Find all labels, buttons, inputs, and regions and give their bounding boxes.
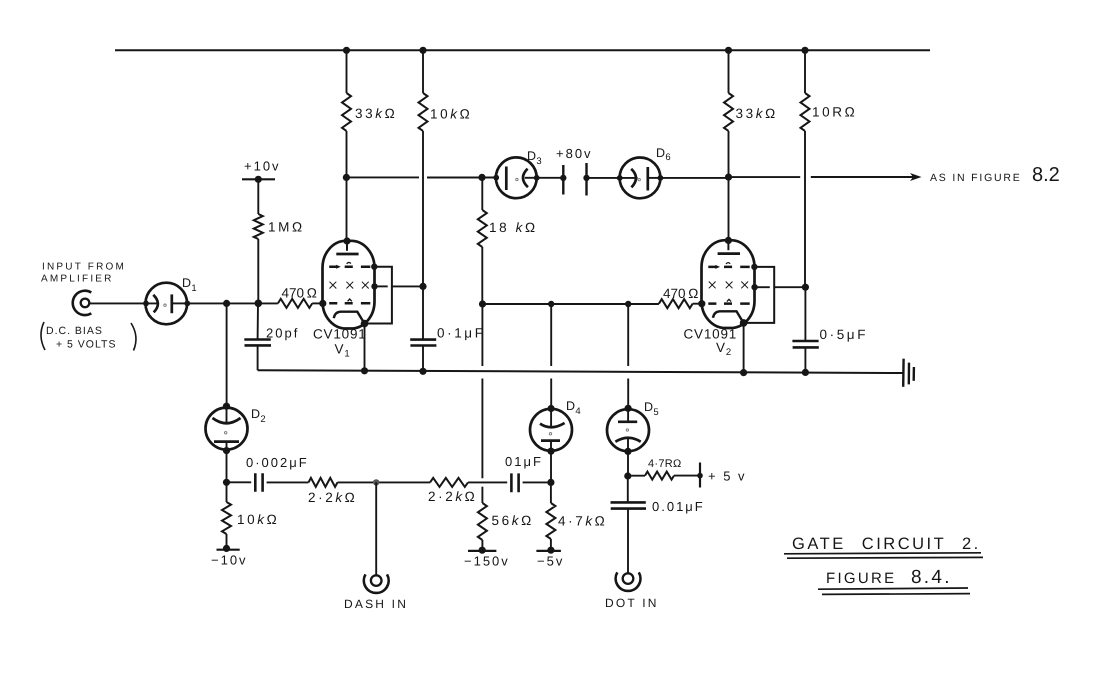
wire D1 to 470 left [187,302,278,304]
label D3 [527,149,542,167]
wire 56k to -150V [481,540,483,550]
label CV1091 V2 [684,327,738,359]
label -150V [464,554,510,569]
capacitor 0.1uF [410,340,436,346]
diode D1 [146,283,188,325]
svg-text:CV1091: CV1091 [313,327,367,342]
svg-text:DOT IN: DOT IN [605,596,659,610]
wire V1 anode to 18k node [346,176,419,178]
wire +10V to 1M [257,179,259,214]
node D4 bottom [547,448,554,455]
label D4 [566,399,581,417]
svg-text:470 Ω: 470 Ω [663,286,701,301]
wire dash node to terminal [375,482,377,575]
wire 33k left to V1 anode [346,131,348,241]
node V2 anode top [725,237,732,244]
resistor 4.7R [645,472,674,480]
node bus-33k-left [343,47,350,54]
label AS IN FIGURE 8.2 [930,164,1060,186]
node cap0.1-groundbus [419,368,426,375]
node -150V [479,547,486,554]
label DOT IN [605,596,659,610]
node D4 top [548,405,555,412]
resistor 4.7k [546,503,555,539]
wire 4.7k to -5V [550,539,552,550]
svg-text:01μF: 01μF [505,454,543,469]
diode D6 [620,158,661,199]
power +10V bar [242,178,275,180]
resistor 470 left [278,299,312,308]
diode D4 [530,409,572,451]
wire 20pF to ground bus corner [257,346,259,371]
node +5V junction [624,472,631,479]
wire output to figure 8.2 arrow [811,176,913,178]
resistor 2.2k A [309,478,338,487]
node V2 screen right [751,284,757,290]
wire D5 tap crossing bus lower [627,379,629,409]
label 56kOhm [492,513,534,528]
wire cap 0.01 to DOT IN [627,509,629,573]
resistor 1M [254,214,263,239]
node V1 anode top [343,237,350,244]
svg-text:−10v: −10v [211,553,248,568]
label 0.1uF [437,326,486,341]
svg-text:56kΩ: 56kΩ [492,513,534,528]
node D2 tap [223,300,230,307]
node -5V [547,547,554,554]
wire junction to 10k [226,482,228,502]
svg-text:AMPLIFIER: AMPLIFIER [41,274,114,285]
wire 18k node down [481,177,483,210]
node D3 cathode lead [534,175,540,181]
svg-text:2·2kΩ: 2·2kΩ [428,489,477,504]
terminal DASH IN [364,574,389,593]
wire 10k to -10V [226,534,228,548]
svg-text:+80v: +80v [556,146,593,161]
wire D5 tap crossing bus upper [627,304,629,366]
wire top HT bus [115,49,930,51]
resistor 33k right [724,93,733,131]
svg-text:20pf: 20pf [266,326,299,341]
wire D4 tap crossing bus lower [550,379,552,409]
node +5V [697,473,703,479]
svg-text:2·2kΩ: 2·2kΩ [308,490,357,505]
wire V1 screen to cap node a [375,285,388,287]
wire 18k to grid line [481,247,483,304]
wire junction to cap 0.002 [227,481,252,483]
underline title double [784,553,983,558]
label FIGURE 8.4 [826,567,952,588]
svg-text:0.01μF: 0.01μF [652,499,705,514]
svg-text:GATE CIRCUIT 2.: GATE CIRCUIT 2. [792,535,981,553]
node V2 cathode ground [740,369,747,376]
wire V2 screen to cap node a [755,286,770,288]
svg-text:AS IN FIGURE: AS IN FIGURE [930,172,1022,184]
wire V2 screen node to cap 0.5 [804,287,806,341]
wire bus to 10k left [422,50,424,93]
wire 4.7R to +5V bar [674,475,700,477]
label D5 [644,400,659,418]
power -10V bar [217,549,240,551]
wire ground bus [258,370,903,373]
label D2 [251,407,266,425]
resistor 470 right [659,299,693,308]
label D.C. BIAS +5 VOLTS [41,322,136,351]
node bus-10k-right [801,47,808,54]
power +5V bar [699,463,701,488]
node grid-line D4 tap [548,301,554,307]
arrowhead output [910,173,922,181]
diode D2 [206,406,248,450]
wire 18k node to D3 [427,177,496,179]
power +80V stub left [562,165,564,195]
resistor 10k bottom [222,502,231,534]
wire V1 suppressor bracket [365,267,392,324]
capacitor 01uF [511,473,518,492]
node V1 screen node [419,283,426,290]
label 0.002uF [246,455,309,470]
terminal input from amplifier [73,291,92,315]
svg-text:1MΩ: 1MΩ [268,220,305,235]
label 10ROhm right [812,105,857,120]
svg-text:10RΩ: 10RΩ [812,105,857,120]
wire junction to cap 0.01 [627,476,629,502]
capacitor 0.002uF [255,473,262,492]
node cap0.5-groundbus [802,369,809,376]
svg-text:8.2: 8.2 [1032,164,1060,186]
svg-text:D.C. BIAS: D.C. BIAS [46,325,103,337]
svg-text:0·002μF: 0·002μF [246,455,309,470]
resistor 2.2k B [430,478,468,487]
wire grid line [483,303,659,305]
node D5 bottom [624,448,631,455]
node V2 cathode [740,319,748,327]
node D3 anode lead [493,175,499,181]
wire V2 anode node to crossover [729,176,801,178]
wire D4 tap crossing bus upper [550,304,552,366]
wire D3 to +80V stub [537,177,564,179]
node +80V stub left [560,175,566,181]
svg-text:INPUT FROM: INPUT FROM [42,262,126,273]
wire V1 cathode to ground bus [364,324,366,371]
wire D5 to +5V node [627,451,629,476]
svg-text:18 kΩ: 18 kΩ [489,220,538,235]
resistor 10k left [419,93,428,131]
power -5V bar [536,550,561,552]
node dash-in junction [373,479,379,485]
resistor 56k [478,503,487,540]
node 18k top [478,174,485,181]
svg-text:+ 5 VOLTS: + 5 VOLTS [56,339,116,351]
label +10V [244,159,281,174]
label +5V [708,469,747,484]
wire 18k node crossing ground bus upper [481,304,483,366]
label 10kOhm bottom [237,512,279,527]
capacitor 20pF [244,340,271,346]
label +80V [556,146,593,161]
svg-text:470 Ω: 470 Ω [282,286,320,301]
node D1 anode lead [184,301,190,307]
diode D5 [607,408,649,451]
wire bus to 10k right [804,50,806,93]
node grid-line left [479,300,486,307]
node +10V [255,176,262,183]
capacitor 0.5uF [792,341,818,347]
resistor 18k [478,210,487,247]
wire D6 to V2 anode node [660,177,728,179]
label DASH IN [344,597,408,611]
wire 470 left to V1 grid [312,302,323,304]
svg-text:33kΩ: 33kΩ [736,106,778,121]
wire cap 01 to D4 node [523,481,551,483]
wire cap 0.1 to ground bus [422,346,424,372]
svg-text:0·1μF: 0·1μF [437,326,486,341]
svg-text:33kΩ: 33kΩ [355,106,397,121]
node D5 top [625,405,632,412]
label 20pf [266,326,299,341]
tube V2 CV1091 [702,240,755,328]
svg-text:FIGURE 8.4.: FIGURE 8.4. [826,567,952,588]
svg-text:−150v: −150v [464,554,510,569]
svg-text:10kΩ: 10kΩ [430,107,472,122]
wire V1 screen to cap node b [392,285,423,287]
terminal DOT IN [616,572,641,591]
node 1M tap [254,300,262,308]
wire 470 right to V2 grid [693,303,702,305]
node D2 bottom [223,447,230,454]
label 01uF [505,454,543,469]
node V2 screen node [802,284,809,291]
wire input to D1 [90,302,160,304]
node bus-33k-right [725,47,732,54]
label -10V [211,553,248,568]
wire V2 suppressor bracket [744,267,775,323]
label INPUT FROM AMPLIFIER [41,262,126,285]
node V1 screen right [371,283,377,289]
wire D4 to dash line [550,451,552,482]
wire junction to 4.7R [628,475,645,477]
node V2 anode output tap [725,174,732,181]
resistor 33k left [342,93,351,131]
wire cap 0.002 to 2.2k A [267,481,309,483]
wire screen node to cap 0.1 [422,286,424,339]
wire 10k left down to screen node [422,131,424,286]
power -150V bar [468,550,496,552]
wire D2 to 10k node [226,451,228,483]
capacitor 0.01uF [611,502,647,508]
svg-text:10kΩ: 10kΩ [237,512,279,527]
wire cap 0.5 to ground bus [804,348,806,373]
node D2-cap-10k junction [223,479,230,486]
svg-text:4·7kΩ: 4·7kΩ [558,514,607,529]
label 1MOhm [268,220,305,235]
wire junction to 4.7k [550,482,552,503]
node D1 cathode lead [143,301,149,307]
label D1 [182,276,197,294]
node V1 anode clamp tap [343,174,350,181]
node bus-10k-left [419,47,426,54]
node V2 grid1 right [751,264,757,270]
node V1 cathode [361,320,369,328]
svg-text:CV1091: CV1091 [684,327,738,342]
label 2.2kOhm A [308,490,357,505]
svg-text:+ 5 v: + 5 v [708,469,747,484]
label 4.7kOhm [558,514,607,529]
wire bus to 33k left [346,50,348,93]
tube V1 CV1091 [323,241,375,329]
resistor 10k right [801,93,810,131]
label 0.5uF [820,327,869,342]
wire V2 cathode to ground bus [743,323,745,373]
wire 33k right to V2 anode [728,131,730,240]
svg-text:DASH IN: DASH IN [344,597,408,611]
node 4.7k junction [547,479,554,486]
node +80V stub right [583,175,589,181]
label 10kOhm left [430,107,472,122]
wire V2 screen to cap node b [774,286,805,288]
node D6 anode lead [658,175,664,181]
label 33kOhm right [736,106,778,121]
wire 2.2k B to cap 01 [468,481,507,483]
node V2 grid [698,300,705,307]
underline figure double [818,588,970,594]
label CV1091 V1 [313,327,367,360]
label 2.2kOhm B [428,489,477,504]
node V1 cathode ground [361,367,368,374]
label GATE CIRCUIT 2 [792,535,981,553]
node D6 cathode lead [617,175,623,181]
svg-text:+10v: +10v [244,159,281,174]
node V1 grid [319,300,326,307]
wire to 56k [481,487,483,503]
svg-text:4·7RΩ: 4·7RΩ [648,458,682,470]
label 470Ohm right [663,286,701,301]
label 18kOhm [489,220,538,235]
wire 1M to input line [257,239,259,303]
wire D2 tap down [226,303,228,406]
wire 2.2k A to dash node [338,481,431,483]
label D6 [656,146,671,163]
ground symbol [903,359,914,387]
label 470Ohm left [282,286,320,301]
label -5V [537,554,564,569]
svg-text:−5v: −5v [537,554,564,569]
wire 18k node crossing ground bus lower [481,379,483,479]
diode D3 [496,157,537,198]
wire bus to 33k right [728,50,730,93]
node D2 top [223,403,230,410]
wire 1M node to 20pF [257,303,259,339]
node grid-line D5 tap [625,301,631,307]
svg-text:0·5μF: 0·5μF [820,327,869,342]
node -10V [223,545,230,552]
node V1 grid1 right [371,264,377,270]
power +80V stub right [585,163,587,196]
label 4.7ROhm [648,458,682,470]
wire +80V stub to D6 [587,177,620,179]
label 33kOhm left [355,106,397,121]
label 0.01uF [652,499,705,514]
wire 10k right down to V2 screen node [804,131,806,287]
